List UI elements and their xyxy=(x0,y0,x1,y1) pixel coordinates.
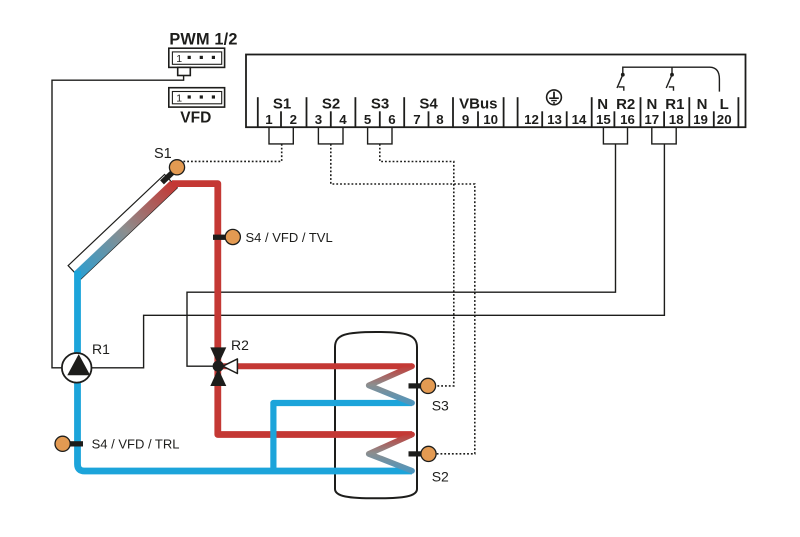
sensor S3 stub xyxy=(409,383,422,388)
sensor S4/VFD/TVL xyxy=(225,229,240,244)
hot pipe valve to upper coil (red) xyxy=(221,363,412,369)
svg-text:S2: S2 xyxy=(322,96,340,113)
relay pivot dot R2 xyxy=(621,73,625,77)
wire PWM connector to pump R1 xyxy=(52,76,184,368)
sensor S4/VFD/TVL stub xyxy=(213,235,226,240)
svg-text:S4 / VFD / TVL: S4 / VFD / TVL xyxy=(246,230,333,245)
svg-text:9: 9 xyxy=(462,112,469,127)
sensor S2 xyxy=(421,446,436,461)
wire relay R2 terminals to valve xyxy=(187,144,616,366)
svg-text:20: 20 xyxy=(717,112,732,127)
svg-text:VFD: VFD xyxy=(180,110,211,127)
hot pipe collector to valve (red) xyxy=(172,184,412,435)
terminal group dividers (tall) xyxy=(258,97,739,127)
svg-text:S4 / VFD / TRL: S4 / VFD / TRL xyxy=(92,437,180,452)
svg-text:13: 13 xyxy=(547,112,562,127)
svg-text:N: N xyxy=(597,96,608,113)
svg-text:S1: S1 xyxy=(273,96,291,113)
bracket under terminals 15-16 xyxy=(603,127,627,144)
bracket under terminals 17-18 xyxy=(652,127,676,144)
svg-text:10: 10 xyxy=(483,112,498,127)
svg-text:1: 1 xyxy=(176,93,182,105)
sensor S1 xyxy=(169,160,184,175)
sensor S3 xyxy=(420,378,435,393)
svg-text:8: 8 xyxy=(436,112,443,127)
svg-text:15: 15 xyxy=(596,112,611,127)
svg-text:14: 14 xyxy=(572,112,587,127)
bracket under terminals 1-2 xyxy=(269,127,293,144)
svg-text:2: 2 xyxy=(290,112,297,127)
wire relay R1 terminals to pump xyxy=(92,144,665,368)
cold pipe collector/pump/tank bottom (blue) xyxy=(78,271,413,471)
svg-text:6: 6 xyxy=(388,112,395,127)
svg-text:S2: S2 xyxy=(432,468,449,484)
svg-text:R1: R1 xyxy=(665,96,684,113)
svg-text:VBus: VBus xyxy=(459,96,497,113)
solar collector xyxy=(68,168,183,279)
PWM connector U-box xyxy=(169,48,225,75)
sensor S4/VFD/TRL xyxy=(55,436,70,451)
svg-text:N: N xyxy=(697,96,708,113)
bracket under terminals 5-6 xyxy=(368,127,392,144)
svg-text:1: 1 xyxy=(176,53,182,65)
svg-text:S3: S3 xyxy=(371,96,389,113)
relay contact symbols above R2/R1/L xyxy=(617,67,719,92)
collector sensor stub S1 xyxy=(160,169,175,184)
dotted sensor lead S1 xyxy=(182,144,282,162)
storage tank xyxy=(335,332,417,498)
svg-text:12: 12 xyxy=(524,112,539,127)
terminal number dividers (short) xyxy=(281,111,714,127)
svg-text:3: 3 xyxy=(315,112,322,127)
valve R2 xyxy=(210,347,237,386)
svg-text:S1: S1 xyxy=(154,146,172,162)
svg-text:1: 1 xyxy=(265,112,273,127)
bracket under terminals 3-4 xyxy=(318,127,343,144)
svg-text:7: 7 xyxy=(413,112,420,127)
terminal numbers xyxy=(265,112,731,127)
VFD connector box xyxy=(169,88,225,107)
svg-text:R2: R2 xyxy=(231,337,249,353)
svg-text:L: L xyxy=(720,96,729,113)
lower heat exchanger coil xyxy=(369,435,412,471)
svg-text:N: N xyxy=(646,96,657,113)
svg-text:18: 18 xyxy=(669,112,684,127)
svg-text:19: 19 xyxy=(693,112,708,127)
svg-text:17: 17 xyxy=(644,112,659,127)
relay pivot dot R1 xyxy=(670,73,674,77)
dotted sensor lead S3 xyxy=(380,144,454,386)
dotted sensor lead S2 xyxy=(331,144,475,454)
pump R1 xyxy=(62,353,92,383)
sensor S2 stub xyxy=(409,451,422,456)
svg-text:R2: R2 xyxy=(616,96,635,113)
svg-text:PWM 1/2: PWM 1/2 xyxy=(169,31,237,49)
svg-text:5: 5 xyxy=(364,112,372,127)
svg-text:16: 16 xyxy=(620,112,635,127)
svg-text:S4: S4 xyxy=(419,96,438,113)
controller terminal strip box xyxy=(246,55,746,128)
upper heat exchanger coil xyxy=(369,366,412,403)
svg-text:R1: R1 xyxy=(92,341,110,357)
svg-text:4: 4 xyxy=(339,112,347,127)
cold return upper coil to bottom pipe (blue) xyxy=(273,403,412,469)
sensor S4/VFD/TRL stub xyxy=(70,441,84,446)
earth symbol above terminal 13 xyxy=(547,90,562,105)
svg-text:S3: S3 xyxy=(432,398,449,414)
